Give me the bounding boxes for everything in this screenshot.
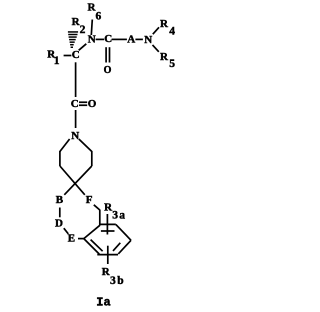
svg-text:3: 3 (110, 275, 116, 287)
R3a bond into ring (106, 214, 108, 235)
piperidine right edge (91, 151, 93, 166)
wire N1 to C2 (96, 38, 105, 40)
wire N3 to R5 (153, 45, 159, 52)
wire F chain vertical to ring (99, 210, 101, 226)
benzene upper-left edge (84, 225, 100, 238)
svg-text:C: C (72, 49, 80, 61)
benzene top edge (99, 223, 116, 225)
svg-text:C: C (104, 33, 112, 45)
R3a tick (101, 230, 115, 232)
svg-text:a: a (119, 210, 125, 222)
benzene bottom edge (97, 254, 118, 256)
svg-text:5: 5 (169, 58, 175, 70)
svg-text:B: B (56, 194, 64, 206)
svg-text:3: 3 (112, 210, 118, 222)
benzene lower-left edge (84, 239, 100, 255)
benzene inner double bond lower-left (91, 240, 103, 252)
svg-text:E: E (68, 233, 75, 245)
wire E to ring (78, 238, 84, 240)
wire D to E (64, 228, 69, 234)
benzene upper-right edge (116, 224, 131, 240)
wire F down diagonal (94, 205, 100, 210)
piperidine lower-right edge plus bond to B (64, 166, 92, 195)
svg-text:O: O (88, 98, 97, 110)
svg-text:Ia: Ia (96, 296, 110, 310)
svg-text:6: 6 (96, 10, 102, 22)
svg-text:C: C (71, 98, 79, 110)
wire C* down to mid C (75, 62, 77, 97)
svg-text:1: 1 (54, 55, 60, 67)
wire R6 to N1 (91, 20, 92, 36)
wire N3 to R4 (153, 27, 159, 34)
benzene lower-right edge (118, 240, 131, 254)
svg-text:D: D (55, 218, 63, 230)
svg-text:N: N (144, 34, 152, 46)
benzene inner double bond lower-right (113, 243, 120, 251)
svg-text:b: b (117, 275, 123, 287)
R3b bond into ring (107, 246, 109, 264)
wire mid C down to N5 (75, 110, 77, 128)
piperidine upper-left edge (60, 139, 70, 152)
svg-text:N: N (71, 130, 79, 142)
piperidine left edge (59, 151, 61, 166)
svg-text:A: A (127, 33, 135, 45)
svg-text:2: 2 (80, 24, 86, 36)
svg-text:R: R (160, 18, 169, 30)
wire C* to N1 (79, 44, 87, 51)
piperidine lower-left edge plus bond to F (60, 166, 85, 195)
svg-text:4: 4 (169, 25, 175, 37)
svg-text:N: N (88, 34, 96, 46)
svg-text:R: R (160, 51, 169, 63)
svg-text:F: F (86, 194, 93, 206)
wire C2 to A (112, 38, 127, 40)
svg-text:O: O (104, 65, 112, 76)
wire R1 to C* (64, 55, 72, 57)
piperidine upper-right edge (79, 139, 92, 152)
wire B to D (59, 208, 61, 218)
wire C2 double bond to O (105, 47, 107, 62)
wire A to N3 (135, 38, 143, 40)
hashed wedge R2 to C* (68, 31, 78, 48)
